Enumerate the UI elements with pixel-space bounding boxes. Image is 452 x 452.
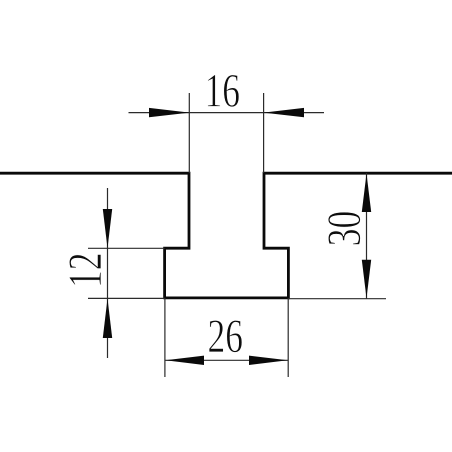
T-slot part outline — [0, 173, 452, 298]
extension line 30 bottom — [288, 298, 386, 300]
svg-text:16: 16 — [205, 65, 241, 118]
arrowhead 30 up — [362, 174, 371, 213]
extension line 16 left — [188, 93, 190, 173]
arrowhead 16 right — [264, 108, 305, 117]
arrowhead 30 down — [362, 260, 371, 299]
extension line 26 left — [164, 298, 166, 377]
extension line 12 top — [88, 247, 165, 249]
extension line 26 right — [287, 298, 289, 377]
svg-text:26: 26 — [208, 310, 244, 363]
svg-text:30: 30 — [318, 211, 371, 247]
arrowhead 12 up — [103, 298, 112, 338]
svg-text:12: 12 — [59, 252, 112, 288]
dimension line 16 — [129, 112, 325, 114]
arrowhead 26 left — [165, 356, 204, 365]
arrowhead 26 right — [249, 356, 288, 365]
arrowhead 12 down — [103, 209, 112, 248]
arrowhead 16 left — [149, 108, 190, 117]
dimension line 12 — [107, 188, 109, 358]
dimension line 30 — [366, 173, 368, 299]
dimension line 26 — [165, 359, 288, 361]
extension line 16 right — [263, 93, 265, 173]
extension line 12 bottom — [88, 297, 165, 299]
